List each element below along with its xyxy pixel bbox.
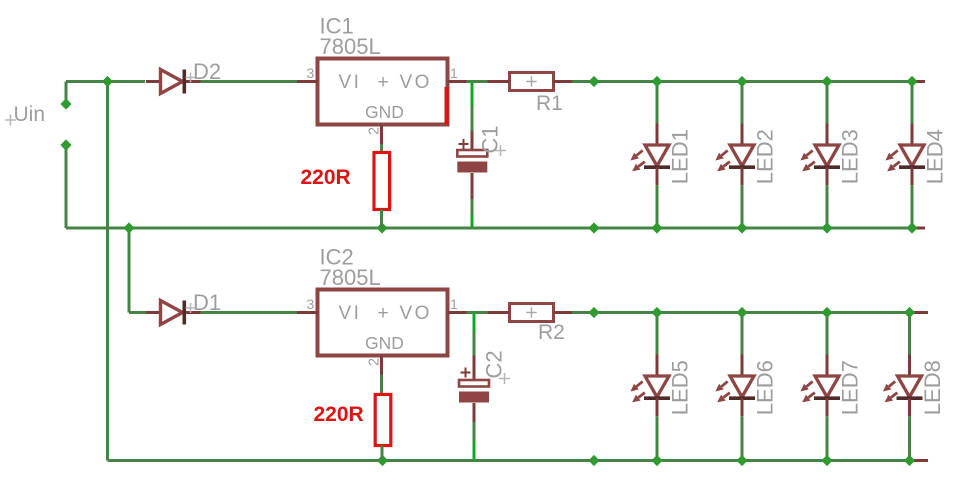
svg-text:GND: GND bbox=[365, 333, 404, 353]
svg-text:7805L: 7805L bbox=[320, 34, 381, 59]
svg-text:3: 3 bbox=[307, 296, 315, 312]
svg-text:R2: R2 bbox=[538, 321, 565, 344]
svg-text:LED8: LED8 bbox=[920, 360, 945, 415]
svg-text:3: 3 bbox=[307, 65, 315, 81]
svg-text:VI: VI bbox=[339, 303, 362, 324]
svg-text:C2: C2 bbox=[482, 350, 507, 378]
svg-text:LED3: LED3 bbox=[838, 129, 863, 184]
svg-text:1: 1 bbox=[450, 296, 458, 312]
svg-text:R1: R1 bbox=[536, 92, 563, 115]
svg-text:220R: 220R bbox=[314, 403, 364, 426]
svg-text:LED5: LED5 bbox=[668, 360, 693, 415]
svg-text:LED1: LED1 bbox=[668, 129, 693, 184]
svg-text:GND: GND bbox=[365, 102, 404, 122]
svg-text:VO: VO bbox=[400, 72, 432, 93]
svg-text:7805L: 7805L bbox=[320, 265, 381, 290]
svg-text:Uin: Uin bbox=[14, 103, 46, 126]
svg-text:+: + bbox=[378, 303, 389, 324]
svg-text:1: 1 bbox=[450, 65, 458, 81]
svg-text:LED6: LED6 bbox=[753, 360, 778, 415]
svg-text:+: + bbox=[378, 72, 389, 93]
svg-text:C1: C1 bbox=[478, 125, 503, 153]
svg-text:LED2: LED2 bbox=[753, 129, 778, 184]
svg-text:D2: D2 bbox=[193, 59, 221, 84]
svg-text:220R: 220R bbox=[301, 166, 351, 189]
svg-text:VO: VO bbox=[400, 303, 432, 324]
svg-text:LED4: LED4 bbox=[923, 129, 948, 184]
svg-text:LED7: LED7 bbox=[838, 360, 863, 415]
svg-text:D1: D1 bbox=[193, 290, 221, 315]
svg-text:VI: VI bbox=[339, 72, 362, 93]
